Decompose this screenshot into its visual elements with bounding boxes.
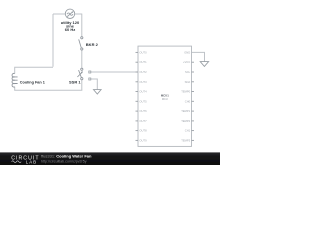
svg-text:OUT8: OUT8	[139, 129, 147, 133]
svg-text:GND: GND	[184, 50, 190, 54]
wire BKR2 bottom to SSR1 top	[81, 50, 83, 68]
svg-text:TEMP0: TEMP0	[181, 90, 190, 94]
svg-text:MCU1: MCU1	[161, 93, 169, 97]
svg-text:LAB: LAB	[26, 159, 37, 164]
svg-text:OUT0: OUT0	[139, 50, 147, 54]
V1 value label: utility 120 / sine / 60 Hz	[61, 20, 80, 32]
footer bar	[0, 152, 220, 165]
svg-text:SDA: SDA	[185, 80, 191, 84]
svg-text:60 Hz: 60 Hz	[65, 27, 75, 32]
SSR1 control terminal +	[89, 71, 91, 73]
svg-text:OUT5: OUT5	[139, 99, 147, 103]
wire left rail to fan top	[15, 67, 53, 73]
MCU left pin labels	[139, 50, 147, 142]
svg-text:OUT2: OUT2	[139, 70, 147, 74]
svg-text:+VCC: +VCC	[183, 60, 190, 64]
svg-text:ffus331: Cooling Water Fan: ffus331: Cooling Water Fan	[41, 154, 92, 159]
wire MCU GND pin to ground	[192, 52, 205, 61]
svg-text:TEMP2: TEMP2	[181, 119, 190, 123]
wire SSR1 control- to ground	[91, 79, 98, 89]
MCU U1 box	[138, 46, 192, 146]
SSR1 control terminal -	[89, 78, 91, 80]
wire down to BKR2 top	[81, 14, 83, 37]
wire SSR1 control+ to MCU OUT2	[91, 71, 138, 73]
svg-text:SSR 1: SSR 1	[69, 79, 81, 84]
MCU right pin labels	[181, 50, 190, 142]
svg-text:MCU: MCU	[162, 97, 168, 101]
CircuitLab logo	[11, 155, 39, 164]
svg-text:OUT4: OUT4	[139, 90, 147, 94]
ground (SSR control return)	[94, 90, 102, 94]
svg-text:Cooling Fan 1: Cooling Fan 1	[20, 80, 45, 84]
svg-text:OUT7: OUT7	[139, 119, 147, 123]
svg-text:OUT6: OUT6	[139, 109, 147, 113]
svg-text:OUT3: OUT3	[139, 80, 147, 84]
svg-text:OUT9: OUT9	[139, 138, 147, 142]
svg-text:BKR 2: BKR 2	[86, 42, 99, 47]
svg-text:OUT1: OUT1	[139, 60, 147, 64]
MCU right pin stubs	[192, 62, 195, 140]
switch BKR2	[79, 37, 83, 50]
wire left rail vertical	[52, 14, 54, 67]
svg-text:CH1: CH1	[185, 129, 191, 133]
ground (MCU GND)	[200, 62, 208, 67]
wire from V1 left terminal to left rail	[53, 13, 65, 15]
wire SSR1 bottom down to bottom rail	[81, 80, 83, 90]
wire from V1 right terminal	[75, 13, 82, 15]
relay SSR1 switch side	[77, 68, 83, 80]
svg-text:http://circuitlab.com/c/pv2r5y: http://circuitlab.com/c/pv2r5y	[41, 159, 87, 163]
bottom rail wire	[15, 87, 83, 91]
voltage source V1	[65, 9, 74, 18]
svg-text:CH0: CH0	[185, 99, 191, 103]
inductor L1 Cooling Fan 1	[12, 73, 18, 87]
svg-text:SCL: SCL	[185, 70, 191, 74]
MCU left pin stubs	[136, 52, 139, 140]
svg-text:TEMP1: TEMP1	[181, 109, 190, 113]
svg-text:TEMP3: TEMP3	[181, 138, 190, 142]
